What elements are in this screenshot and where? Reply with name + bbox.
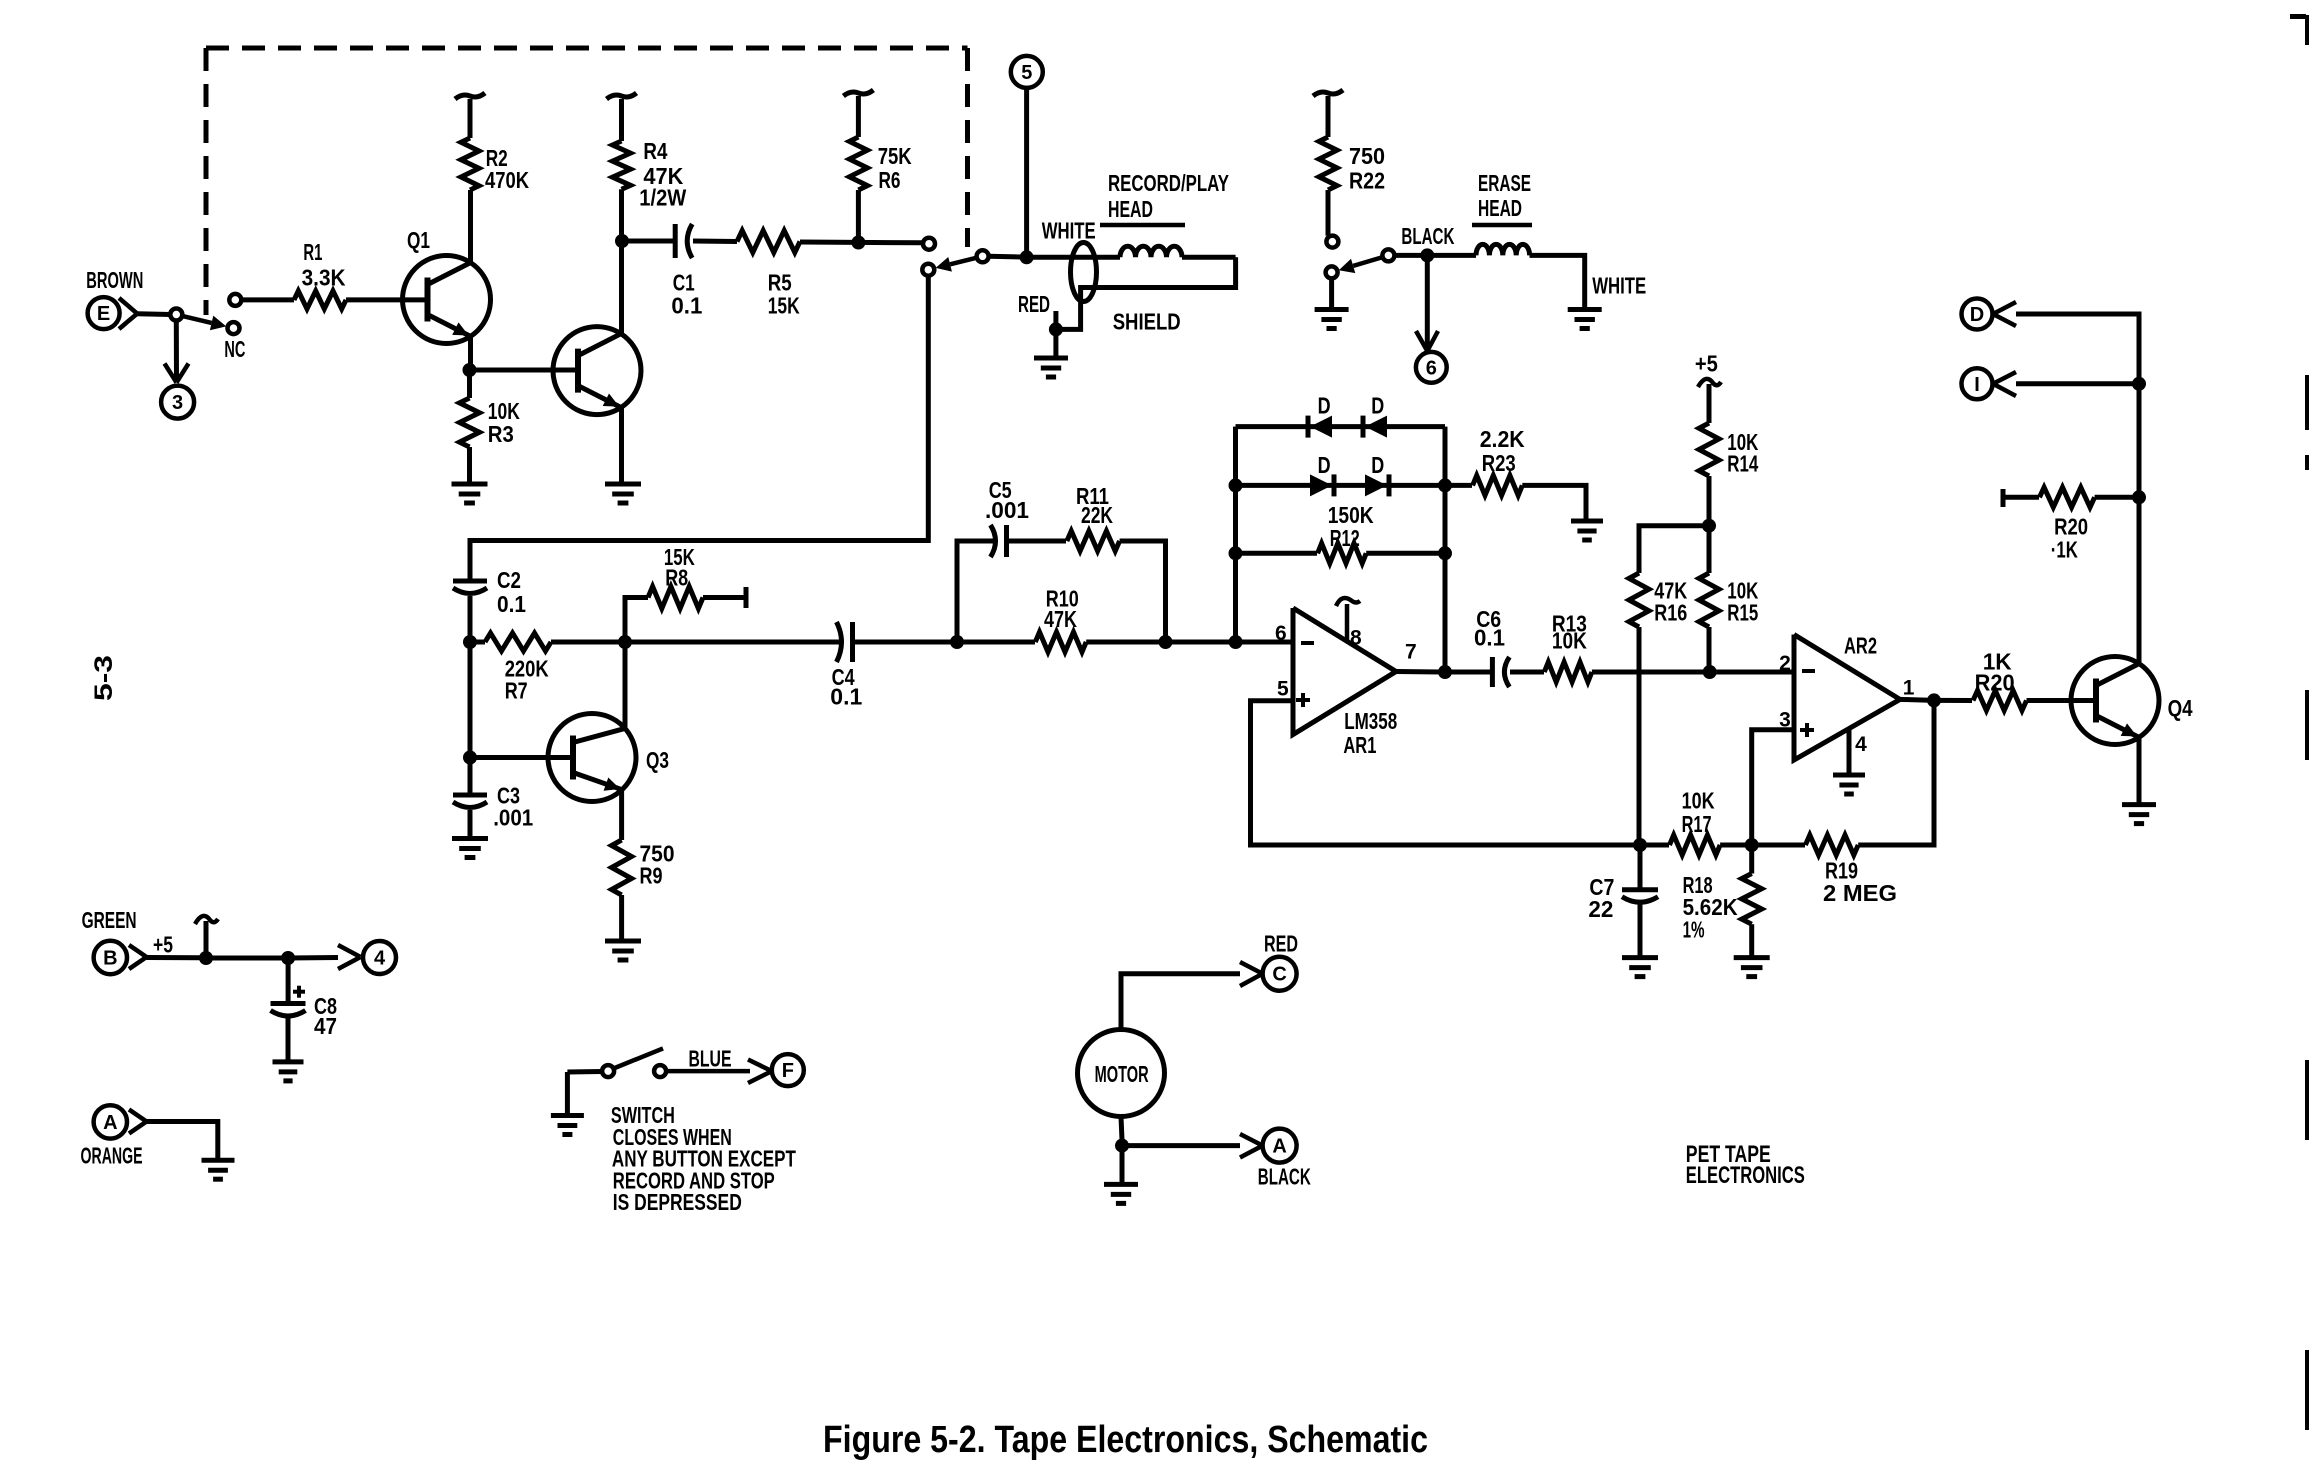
svg-text:C2: C2 — [497, 567, 521, 593]
svg-text:R17: R17 — [1682, 811, 1712, 837]
svg-text:R9: R9 — [640, 862, 663, 888]
svg-text:R3: R3 — [488, 421, 514, 447]
svg-text:C1: C1 — [673, 269, 695, 295]
svg-text:10K: 10K — [488, 398, 520, 424]
svg-text:4: 4 — [374, 948, 386, 970]
svg-text:7: 7 — [1405, 640, 1417, 663]
svg-text:WHITE: WHITE — [1592, 272, 1646, 298]
svg-text:R7: R7 — [505, 677, 528, 703]
svg-text:Q3: Q3 — [646, 747, 669, 773]
svg-text:R20: R20 — [1975, 669, 2015, 695]
svg-text:R14: R14 — [1727, 451, 1758, 477]
svg-text:4: 4 — [1855, 733, 1867, 756]
svg-text:470K: 470K — [485, 167, 529, 193]
svg-text:+5: +5 — [153, 932, 173, 958]
svg-text:AR1: AR1 — [1343, 732, 1376, 758]
svg-text:ERASE: ERASE — [1478, 170, 1531, 196]
svg-text:10K: 10K — [1682, 788, 1715, 814]
svg-text:NC: NC — [224, 336, 245, 362]
svg-text:1/2W: 1/2W — [639, 185, 686, 211]
svg-text:10K: 10K — [1552, 628, 1587, 654]
svg-text:47K: 47K — [1044, 606, 1077, 632]
svg-text:8: 8 — [1350, 626, 1362, 649]
svg-text:R16: R16 — [1654, 599, 1687, 625]
svg-text:MOTOR: MOTOR — [1095, 1061, 1149, 1087]
svg-text:0.1: 0.1 — [830, 684, 862, 710]
svg-text:2 MEG: 2 MEG — [1823, 880, 1897, 906]
svg-text:5: 5 — [1021, 62, 1032, 84]
svg-text:·1K: ·1K — [2051, 536, 2078, 562]
svg-text:D: D — [1318, 452, 1331, 478]
svg-text:HEAD: HEAD — [1478, 195, 1522, 221]
svg-text:IS DEPRESSED: IS DEPRESSED — [613, 1189, 742, 1215]
svg-text:6: 6 — [1275, 622, 1287, 645]
svg-text:ELECTRONICS: ELECTRONICS — [1686, 1162, 1805, 1189]
svg-text:.001: .001 — [493, 805, 533, 831]
svg-text:22: 22 — [1588, 896, 1613, 922]
svg-text:15K: 15K — [768, 293, 800, 319]
svg-text:R6: R6 — [879, 167, 901, 193]
svg-text:HEAD: HEAD — [1108, 196, 1153, 222]
svg-text:R4: R4 — [643, 138, 667, 164]
svg-text:RED: RED — [1264, 930, 1298, 956]
svg-text:3: 3 — [172, 392, 183, 414]
svg-text:1%: 1% — [1683, 916, 1705, 942]
svg-text:WHITE: WHITE — [1042, 218, 1096, 244]
svg-text:3.3K: 3.3K — [302, 264, 346, 290]
svg-text:R5: R5 — [768, 269, 792, 295]
svg-text:+5: +5 — [1695, 351, 1718, 377]
svg-text:R1: R1 — [303, 239, 322, 265]
svg-text:75K: 75K — [878, 143, 912, 169]
svg-text:A: A — [103, 1112, 117, 1134]
svg-text:.001: .001 — [985, 497, 1029, 523]
svg-text:A: A — [1272, 1136, 1286, 1158]
svg-text:D: D — [1371, 452, 1384, 478]
svg-text:AR2: AR2 — [1844, 633, 1877, 659]
svg-text:22K: 22K — [1081, 502, 1113, 528]
svg-text:R8: R8 — [665, 565, 688, 591]
svg-text:I: I — [1974, 374, 1980, 396]
svg-text:R22: R22 — [1349, 168, 1385, 194]
svg-text:E: E — [97, 303, 110, 325]
svg-text:BLACK: BLACK — [1401, 223, 1454, 249]
svg-text:D: D — [1318, 392, 1331, 418]
svg-text:SHIELD: SHIELD — [1113, 308, 1181, 334]
svg-text:D: D — [1970, 304, 1984, 326]
svg-text:1: 1 — [1903, 676, 1915, 699]
svg-text:D: D — [1371, 392, 1384, 418]
svg-text:RED: RED — [1018, 291, 1050, 317]
svg-text:0.1: 0.1 — [497, 591, 526, 617]
svg-text:47: 47 — [314, 1013, 337, 1039]
svg-text:RECORD/PLAY: RECORD/PLAY — [1108, 170, 1229, 196]
svg-text:BLUE: BLUE — [689, 1045, 732, 1071]
svg-text:Figure 5-2. Tape Electronics,: Figure 5-2. Tape Electronics, Schematic — [823, 1419, 1428, 1461]
svg-text:750: 750 — [1349, 143, 1385, 169]
svg-text:R23: R23 — [1482, 450, 1516, 476]
svg-text:2.2K: 2.2K — [1480, 426, 1525, 452]
svg-text:B: B — [103, 948, 117, 970]
svg-text:0.1: 0.1 — [671, 293, 702, 319]
svg-text:Q4: Q4 — [2168, 695, 2193, 721]
svg-text:Q1: Q1 — [407, 227, 430, 253]
svg-text:6: 6 — [1426, 357, 1437, 379]
svg-text:ORANGE: ORANGE — [81, 1143, 143, 1169]
svg-text:GREEN: GREEN — [82, 907, 137, 933]
svg-text:BROWN: BROWN — [86, 267, 143, 293]
svg-text:R12: R12 — [1330, 525, 1360, 551]
svg-text:F: F — [782, 1060, 794, 1082]
svg-text:2: 2 — [1779, 652, 1791, 675]
svg-text:5: 5 — [1277, 678, 1289, 701]
svg-text:C: C — [1272, 964, 1286, 986]
svg-text:5-3: 5-3 — [90, 655, 118, 701]
svg-text:0.1: 0.1 — [1474, 624, 1505, 650]
svg-text:BLACK: BLACK — [1258, 1163, 1311, 1189]
svg-text:LM358: LM358 — [1344, 708, 1397, 734]
svg-text:R15: R15 — [1727, 599, 1758, 625]
